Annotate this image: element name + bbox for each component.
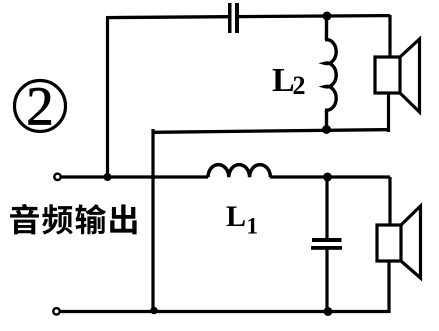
junction: C2 bottom node bbox=[324, 307, 333, 316]
input terminal (top) bbox=[54, 174, 60, 180]
speaker (woofer) bbox=[377, 206, 421, 278]
capacitor C1 bbox=[228, 3, 239, 33]
svg-text:2: 2 bbox=[293, 71, 306, 100]
junction: negative bus to bottom rail bbox=[150, 307, 158, 315]
svg-text:L: L bbox=[226, 200, 246, 233]
label L1 bbox=[226, 200, 258, 239]
junction: input riser node bbox=[104, 173, 112, 181]
wire: woofer positive lead bbox=[388, 177, 391, 226]
input terminal (bottom) bbox=[53, 308, 59, 314]
wire: top rail left of C1 bbox=[106, 15, 228, 19]
wire: top input lead to L1 bbox=[62, 175, 209, 178]
junction: L1/C2/woofer node bbox=[323, 173, 332, 182]
svg-text:2: 2 bbox=[26, 76, 54, 137]
svg-text:L: L bbox=[272, 62, 295, 99]
junction: C1/L2/tweeter node bbox=[323, 12, 332, 21]
wire: top rail right of C1 bbox=[239, 16, 390, 17]
wire: tweeter negative lead bbox=[387, 93, 390, 132]
inductor L1 coil bbox=[208, 165, 270, 178]
wire crossing (no connection) bbox=[150, 174, 155, 179]
wire: woofer negative lead bbox=[387, 261, 390, 313]
wire: left vertical riser bbox=[106, 16, 109, 178]
wire: tweeter positive lead bbox=[388, 15, 391, 58]
label: audio output (Chinese) bbox=[10, 204, 137, 235]
wire: tweeter negative rail bbox=[153, 130, 390, 133]
svg-text:1: 1 bbox=[247, 214, 259, 239]
capacitor C2 bbox=[311, 177, 342, 312]
wire: L1 to woofer node bbox=[270, 175, 390, 178]
inductor L2 coil bbox=[325, 16, 336, 130]
speaker (tweeter) bbox=[375, 39, 420, 112]
wire: negative bus vertical bbox=[151, 129, 154, 312]
circled figure number 2 bbox=[15, 76, 66, 137]
junction: L2 bottom node bbox=[322, 125, 331, 134]
label L2 bbox=[272, 62, 306, 100]
wire: bottom rail bbox=[61, 310, 391, 313]
